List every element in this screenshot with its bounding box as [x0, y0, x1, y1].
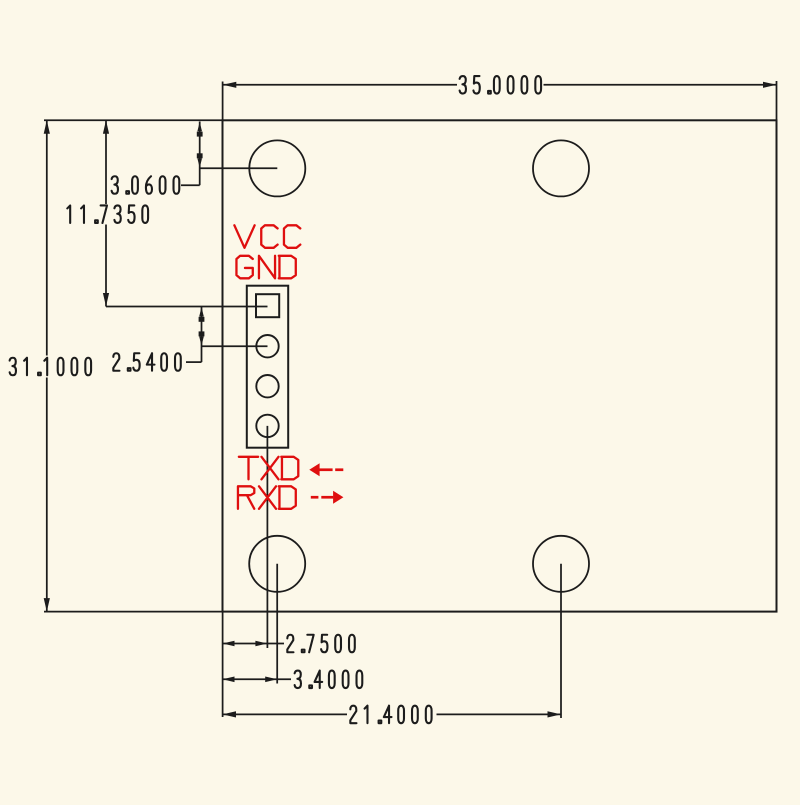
- label VCC (pin 1): [234, 225, 300, 248]
- label TXD (pin 4): [239, 457, 298, 480]
- mounting hole top-right: [533, 140, 589, 196]
- leader to pin2 center: [202, 345, 268, 347]
- mounting hole bottom-left: [249, 536, 305, 592]
- dimension 31.1000 line (left): [46, 120, 48, 355]
- dimension text 2.5400: [113, 353, 180, 371]
- label RXD (pin 3): [238, 486, 296, 509]
- leader to hole center: [200, 167, 278, 169]
- extension line: board bottom edge extended left: [44, 611, 223, 613]
- pin 1 square pad (VCC): [256, 294, 279, 317]
- dimension 35.0000 line (top): [223, 84, 457, 86]
- pin 2 round pad (GND): [256, 335, 278, 357]
- dimension 2.7500 (left edge to pin column): [223, 643, 285, 645]
- leader hook to 3.0600 text: [181, 184, 200, 186]
- extension line: board right edge extended above: [776, 81, 778, 120]
- leader hook to 2.5400 text: [186, 361, 202, 363]
- dimension text 2.7500: [287, 635, 354, 653]
- pin 3 round pad: [256, 375, 278, 397]
- red arrow left (TXD input): [309, 463, 343, 476]
- extension line: board left edge extended above and below: [222, 82, 224, 121]
- label GND (pin 2): [236, 256, 295, 278]
- dimension 21.4000 (left edge to right hole column): [223, 713, 348, 715]
- mounting hole top-left: [249, 140, 305, 196]
- dimension 3.4000 (left edge to hole column): [223, 678, 292, 680]
- extension line: board top edge extended left: [44, 119, 223, 121]
- extension line: bottom-right hole center down: [560, 564, 562, 718]
- extension line: pin column down from pin 4: [266, 426, 268, 648]
- dimension 11.7350 (board top to pin1 center): [105, 120, 107, 204]
- extension line: bottom-left hole center down: [276, 564, 278, 684]
- dimension text 11.7350: [67, 205, 148, 223]
- dimension text 35.0000: [460, 76, 541, 94]
- dimension text 31.1000: [10, 358, 91, 376]
- board outline rectangle 35.0 x 31.1: [223, 120, 777, 611]
- red arrow right (RXD output): [311, 491, 344, 504]
- pin 4 round pad (TXD/RXD side): [256, 415, 278, 437]
- mounting hole bottom-right: [533, 536, 589, 592]
- dimension text 21.4000: [350, 706, 431, 724]
- dimension text 3.4000: [295, 671, 363, 689]
- connector J1 body: [247, 286, 288, 448]
- dimension text 3.0600: [112, 176, 180, 194]
- leader to pin1 center: [106, 306, 268, 308]
- dimension 3.0600 (board top to hole center): [199, 122, 201, 186]
- dimension 2.5400 (pin pitch): [201, 307, 203, 363]
